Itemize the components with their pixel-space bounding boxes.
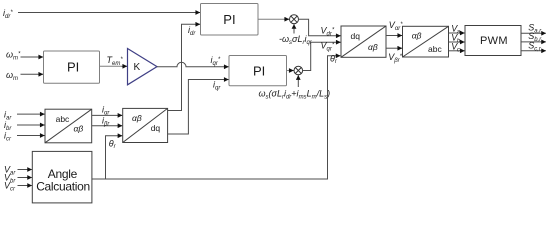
svg-text:Tem*: Tem*: [107, 55, 124, 67]
svg-text:PI: PI: [67, 59, 79, 74]
wire V_ar* from dq to ab-abc block: [386, 35, 402, 37]
wire i_qr feedback from ab-dq block up to PI2: [168, 80, 229, 135]
svg-text:αβ: αβ: [412, 30, 422, 40]
summing junction X1: [290, 15, 299, 24]
svg-text:PI: PI: [223, 12, 235, 27]
wire S_b,r output: [521, 41, 546, 43]
wire i_dr* reference into PI1: [18, 12, 200, 14]
svg-text:αβ: αβ: [132, 113, 142, 123]
wire i_beta-r to ab-dq block: [92, 125, 123, 127]
svg-text:abc: abc: [428, 44, 442, 54]
svg-text:iαr: iαr: [102, 104, 110, 116]
wire X1 output to dq block V_dr* input: [299, 19, 341, 36]
wire S_c,r output: [521, 50, 546, 52]
wire X2 output to dq block V_qr* input: [303, 42, 341, 70]
svg-text:iβr: iβr: [102, 116, 110, 128]
svg-text:-ωsσLriqr: -ωsσLriqr: [279, 34, 313, 46]
block PWM: [465, 26, 521, 56]
wire compensation term into X1 from below: [293, 24, 295, 33]
wire compensation term into X2 from below: [297, 75, 299, 87]
svg-text:Calcuation: Calcuation: [36, 179, 90, 193]
svg-text:PI: PI: [253, 64, 265, 79]
block dq to alpha-beta transform: [341, 26, 386, 57]
wire V_br* from dq to ab-abc block: [386, 47, 402, 49]
wire S_a,r output: [521, 32, 546, 34]
wire omega_m* into speed PI: [21, 56, 44, 58]
wire i_br into abc block: [17, 124, 45, 126]
wire V_br into angle calculation: [18, 177, 32, 179]
svg-text:ωm*: ωm*: [6, 50, 21, 62]
svg-text:αβ: αβ: [74, 124, 84, 134]
wire i_alpha-r to ab-dq block: [92, 114, 123, 116]
wire V_c into PWM: [449, 50, 465, 52]
block PI1 (d-axis current PI): [201, 4, 259, 36]
svg-text:K: K: [134, 62, 141, 73]
svg-text:iqr*: iqr*: [211, 55, 221, 67]
svg-text:PWM: PWM: [480, 35, 508, 47]
svg-text:iqr: iqr: [213, 79, 221, 91]
svg-text:αβ: αβ: [368, 42, 378, 52]
svg-text:θr: θr: [109, 138, 117, 150]
wire theta_r branch into ab-dq block: [106, 136, 123, 179]
svg-text:Vαr*: Vαr*: [389, 20, 403, 32]
block speed PI controller: [44, 51, 100, 83]
block alpha-beta to abc transform: [403, 26, 449, 57]
wire V_cr into angle calculation: [18, 185, 32, 187]
wire PI1 output into summing junction 1: [258, 18, 284, 20]
svg-text:icr: icr: [4, 131, 12, 143]
block angle calculation: [32, 151, 92, 203]
wire V_ar into angle calculation: [18, 169, 32, 171]
block abc to alpha-beta transform: [45, 109, 92, 143]
wire i_cr into abc block: [17, 135, 45, 137]
svg-text:dq: dq: [351, 31, 361, 41]
svg-text:ωm: ωm: [6, 70, 18, 82]
block alpha-beta to dq transform: [123, 108, 168, 142]
wire T_em* from speed PI to gain K: [100, 65, 122, 67]
summing junction X2: [294, 66, 303, 75]
wire i_ar into abc block: [17, 113, 45, 115]
svg-text:ωs(σLridr+imsLm/Ls): ωs(σLridr+imsLm/Ls): [259, 89, 331, 101]
svg-text:idr: idr: [188, 25, 196, 37]
block PI2 (q-axis current PI): [229, 56, 287, 86]
svg-text:dq: dq: [151, 123, 161, 133]
svg-text:abc: abc: [56, 114, 70, 124]
wire theta_r bus from angle calculation to dq block: [92, 56, 340, 179]
wire omega_m into speed PI: [21, 73, 44, 75]
wire V_a into PWM: [449, 32, 465, 34]
wire PI2 output into summing junction 2: [287, 70, 291, 72]
svg-text:idr*: idr*: [3, 8, 13, 20]
wire i_qr* from K to PI2 with hop over i_dr line: [157, 62, 229, 67]
wire V_b into PWM: [449, 41, 465, 43]
gain K: [128, 49, 158, 85]
wire i_dr feedback from ab-dq block up to PI1: [168, 24, 200, 110]
svg-text:Vβr*: Vβr*: [388, 52, 402, 64]
